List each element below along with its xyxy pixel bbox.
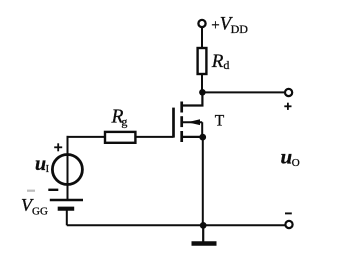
svg-text:T: T [215,113,225,130]
node source junction [199,134,206,141]
drain lead [182,92,203,105]
wire VDD terminal to Rd [201,27,203,49]
svg-text:u: u [35,153,46,175]
svg-text:VGG: VGG [21,195,48,217]
output terminal minus [285,221,292,228]
battery VGG plate long [50,199,83,202]
gate bar [172,108,175,138]
transistor T (N-channel MOSFET) [174,92,207,142]
plus sign output [284,103,291,110]
resistor Rd [198,48,207,74]
scan speck [27,190,35,192]
resistor Rg [105,132,135,143]
wire drain node to output+ terminal [202,91,285,93]
wire Rd to drain node [201,74,203,92]
node ground junction [200,222,207,229]
svg-text:Rd: Rd [211,51,230,72]
wire ui to Rg [67,136,106,138]
svg-text:+VDD: +VDD [211,14,248,35]
wire source lead vertical through ui [67,136,69,200]
power terminal +VDD [198,20,205,27]
channel segment drain [180,102,183,113]
svg-text:u: u [281,144,293,168]
wire source down [202,137,204,225]
node drain junction [199,89,206,96]
body lead with arrow [183,121,203,123]
ground [192,225,217,243]
channel segment body [180,116,183,127]
wire Rg to gate [135,136,174,138]
svg-text:O: O [292,157,300,169]
source ui circle [52,155,82,185]
output terminal plus [285,89,292,96]
source lead [182,136,203,138]
wire bottom rail [67,224,286,226]
minus sign ui [48,189,58,191]
svg-text:Rg: Rg [111,107,128,129]
wire battery to bottom rail [66,211,68,226]
svg-text:I: I [46,164,50,175]
minus sign output [285,212,292,214]
plus sign ui [54,143,62,151]
battery VGG plate short [58,207,74,211]
channel segment source [180,131,183,142]
